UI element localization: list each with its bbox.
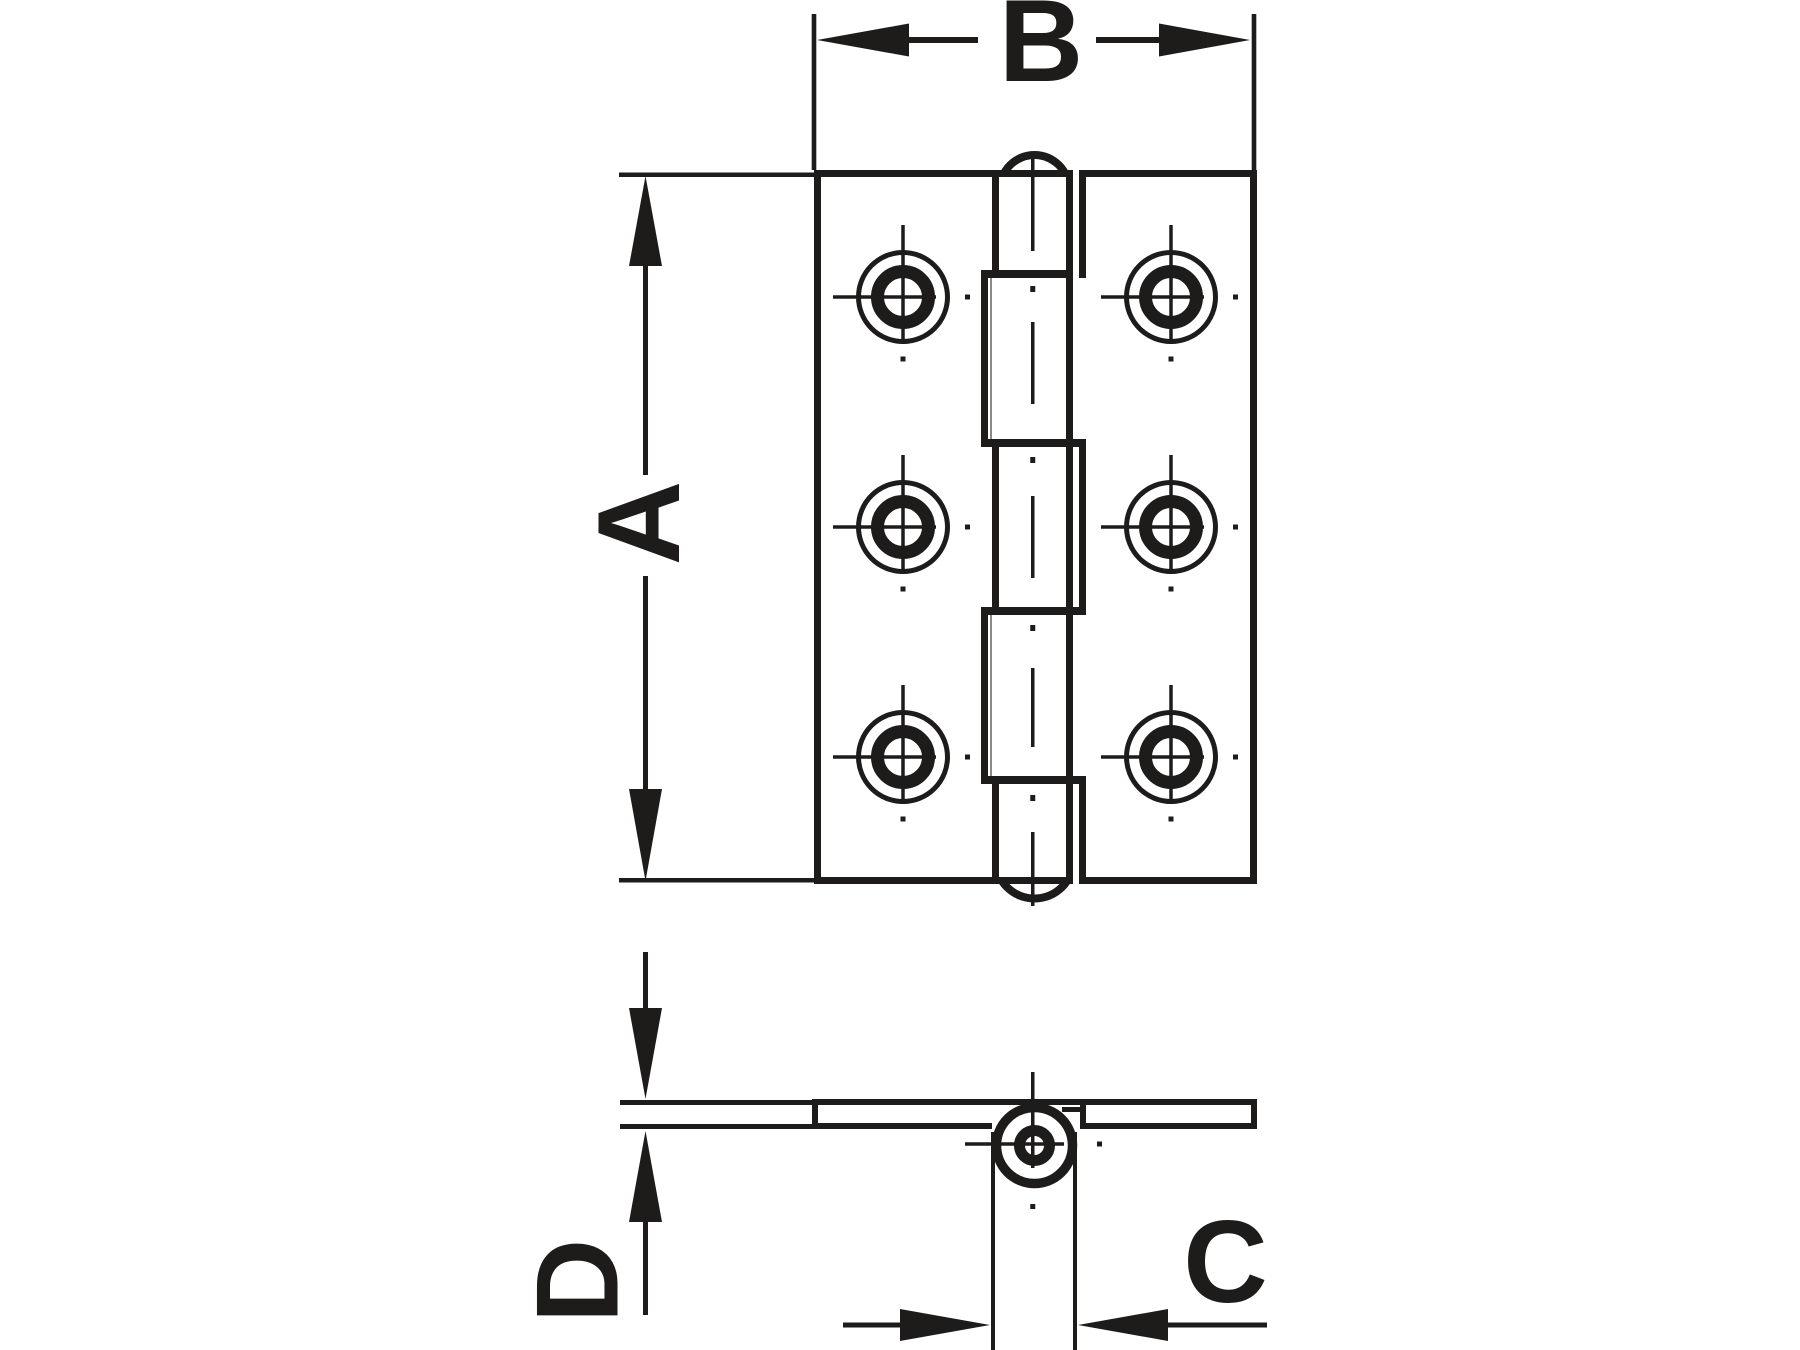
- hidden leaf edge thin lines: [990, 278, 992, 439]
- dimension B extension line right: [1252, 14, 1257, 170]
- side view: rear leaf thin lines: [620, 1100, 816, 1105]
- dimension B arrow right: [1096, 37, 1161, 43]
- hinge leaf right outline: [1079, 170, 1257, 177]
- dimension A arrow up: [629, 176, 662, 266]
- knuckle boundary 2: [981, 439, 1086, 447]
- side view: front leaf bar: [812, 1099, 1257, 1105]
- dimension A extension line bottom: [619, 878, 814, 883]
- side view: knuckle tube lines: [991, 1132, 995, 1350]
- left leaf inner edge segments: [992, 170, 999, 278]
- side view: leaf joint notch: [1080, 1105, 1086, 1129]
- screw hole crosshairs: [833, 225, 1238, 822]
- pin tube right edge: [1066, 170, 1073, 884]
- side view: knuckle rings: [997, 1108, 1073, 1184]
- dimension C arrow right: [843, 1323, 900, 1328]
- knuckle boundary 1: [981, 270, 1073, 278]
- svg-text:B: B: [999, 0, 1084, 106]
- pin centre line (dash-dot): [1031, 152, 1035, 251]
- svg-text:D: D: [512, 1239, 643, 1324]
- right leaf inner edge segments: [1079, 170, 1086, 278]
- knuckle boundary 3: [981, 607, 1086, 615]
- hinge leaf left outline: [814, 170, 1073, 177]
- knuckle 2 and 4 left edges: [981, 270, 988, 447]
- dimension A extension line top: [619, 173, 814, 178]
- dimension B arrow left: [817, 24, 909, 57]
- dimension A arrow down: [643, 576, 648, 789]
- dimension C arrow left: [1078, 1309, 1168, 1341]
- svg-text:C: C: [1183, 1196, 1268, 1327]
- dimension D arrow down: [643, 952, 648, 1008]
- dimension D arrow up: [629, 1131, 662, 1222]
- dimension B extension line left: [812, 14, 817, 170]
- screw holes: [859, 253, 1216, 802]
- side view centre lines: [1031, 1072, 1035, 1168]
- knuckle boundary 4: [981, 776, 1086, 784]
- svg-text:A: A: [573, 481, 704, 566]
